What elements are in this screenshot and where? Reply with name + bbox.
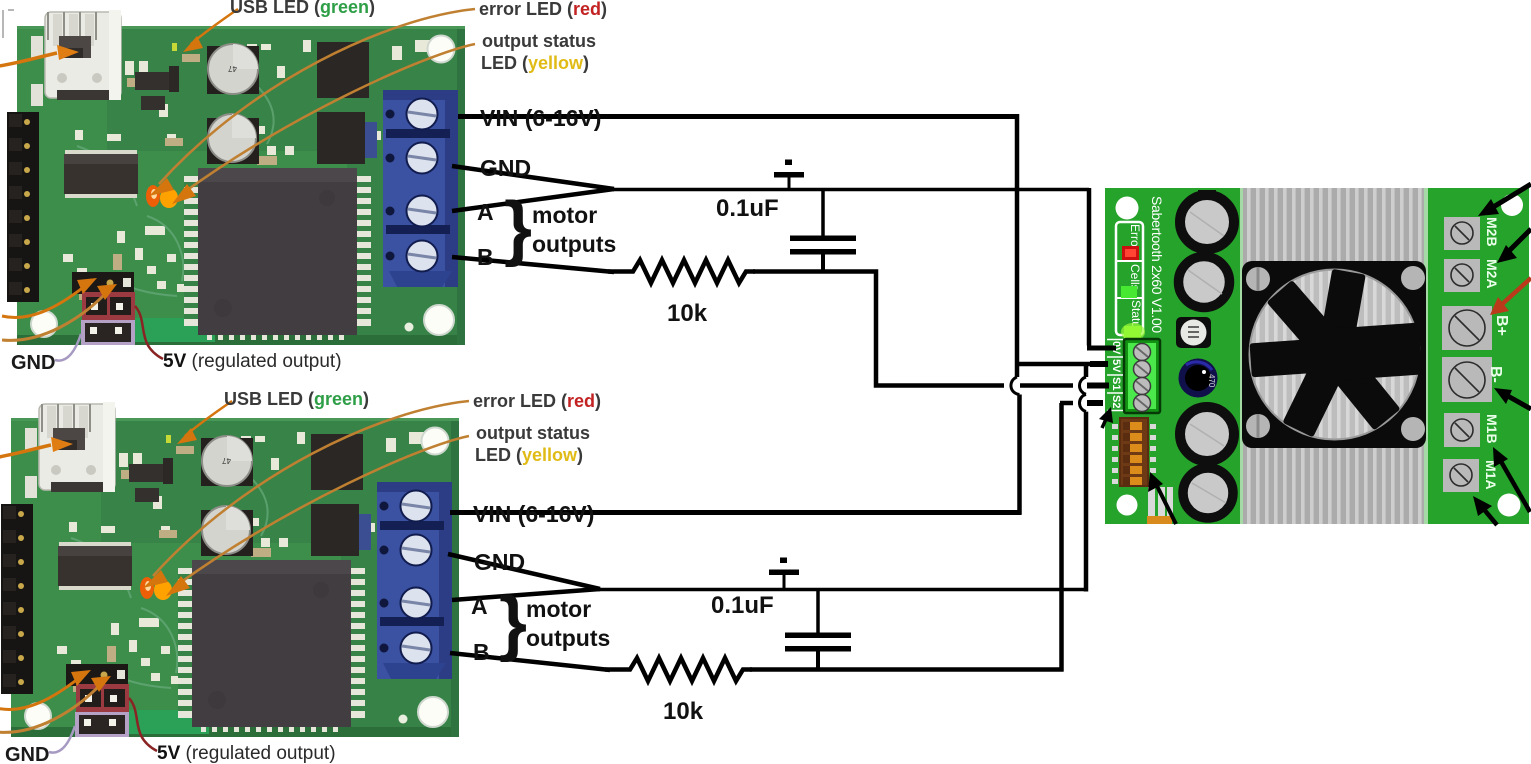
resistor R2 10k zigzag <box>605 658 752 681</box>
svg-text:A: A <box>477 199 494 225</box>
capacitor C2 plates <box>785 633 851 652</box>
svg-text:B-: B- <box>1487 366 1504 383</box>
svg-text:GND: GND <box>480 155 531 181</box>
annotation arrow to M2A <box>1508 229 1531 252</box>
annotation arrow to M1B <box>1499 458 1530 512</box>
wire stub into S2 terminal <box>1087 400 1103 406</box>
svg-text:0.1uF: 0.1uF <box>716 195 779 222</box>
terminal labels 0V 5V S1 S2 <box>1110 341 1122 408</box>
heatsink fins <box>1240 188 1428 524</box>
annotation arrow to DIP switch <box>1156 484 1176 524</box>
svg-text:S1: S1 <box>1110 377 1122 390</box>
wire GND board1 horizontal <box>608 188 1089 192</box>
svg-text:outputs: outputs <box>526 625 610 651</box>
wire stub into 0V terminal <box>1087 346 1116 351</box>
svg-text:Sabertooth 2x60 V1.00: Sabertooth 2x60 V1.00 <box>1149 196 1165 333</box>
svg-text:B: B <box>477 244 494 270</box>
error LED (red) <box>1122 246 1139 260</box>
annotation arrow to S2 terminal <box>1102 417 1107 428</box>
mounting holes <box>1116 197 1139 220</box>
annotation arrow to M2B <box>1490 184 1531 209</box>
svg-text:0.1uF: 0.1uF <box>711 592 774 619</box>
wire VIN vertical lower <box>1017 395 1022 515</box>
cells LED (green) <box>1121 286 1137 298</box>
wire stub into 5V terminal <box>1090 361 1108 367</box>
cooling fan <box>1242 261 1426 448</box>
svg-text:M1B: M1B <box>1484 414 1500 444</box>
wire from R1 to corner <box>753 272 1004 386</box>
wire vertical x=1086 down to board2 GND <box>1084 412 1089 592</box>
svg-text:B: B <box>473 639 490 665</box>
annotation arrow to M1A <box>1482 507 1497 525</box>
white resistor bars below DIP <box>1148 487 1155 518</box>
svg-text:motor: motor <box>526 596 591 622</box>
wire S1 between hops <box>1020 383 1073 388</box>
svg-text:A: A <box>471 593 488 619</box>
small cap 150 <box>1176 317 1211 348</box>
svg-text:M2A: M2A <box>1484 259 1500 289</box>
annotation arrow to B+ (red) <box>1500 278 1531 306</box>
svg-text:VIN (6-16V): VIN (6-16V) <box>473 501 594 527</box>
LED status panel <box>1116 222 1145 341</box>
svg-text:5V: 5V <box>1110 359 1122 373</box>
wire VIN board2 horizontal <box>450 510 1022 515</box>
fan corner screws <box>1246 267 1270 291</box>
wire vertical riser x=1061 up to S2 <box>1059 403 1064 672</box>
wire B board2 diagonal to resistor <box>450 653 610 670</box>
wire hop: VIN vertical over S1 wire <box>1011 377 1020 395</box>
Sabertooth 2x60 motor controller board <box>1099 184 1531 525</box>
motor driver board 2 (bottom-left) <box>0 389 601 764</box>
wire hop over S2 <box>1079 394 1086 411</box>
wire stub into S1 terminal <box>1087 383 1109 389</box>
wire VIN vertical (net VIN, x=1017) upper <box>1015 114 1020 377</box>
big electrolytic caps <box>1179 190 1235 518</box>
capacitor C2 0.1uF stem top <box>816 589 820 635</box>
ground symbol (bottom) <box>769 558 799 590</box>
DIP switch <box>1112 417 1156 487</box>
wire VIN board1 horizontal <box>458 114 1017 119</box>
power input terminal block (0V 5V S1 S2) <box>1107 339 1160 413</box>
svg-text:10k: 10k <box>667 300 708 327</box>
wire vertical x=1086 from 5V line down <box>1084 362 1089 377</box>
svg-text:S2: S2 <box>1110 395 1122 408</box>
ground symbol (top) <box>774 160 804 190</box>
blue inductor 470 <box>1179 359 1218 398</box>
svg-text:outputs: outputs <box>532 231 616 257</box>
wire GND board1 diagonals from terminal <box>452 166 614 189</box>
svg-text:M2B: M2B <box>1484 217 1500 247</box>
photo edge artifacts top-left <box>3 10 14 38</box>
resistor R1 10k zigzag <box>608 260 755 283</box>
output terminals M2B M2A B+ B- M1B M1A <box>1442 217 1492 492</box>
wire GND board2 diagonals <box>448 554 600 589</box>
wire B board1 diagonal to resistor <box>452 257 614 272</box>
wire GND board2 horizontal <box>595 588 1088 592</box>
capacitor C2 stem bottom <box>816 651 820 672</box>
capacitor C1 plates <box>790 236 856 255</box>
svg-text:}: } <box>499 583 527 663</box>
svg-text:470: 470 <box>1207 374 1216 388</box>
svg-text:}: } <box>504 188 532 268</box>
capacitor C1 0.1uF stem top <box>821 189 825 238</box>
wire from R2 to vertical riser <box>750 667 1064 672</box>
annotation arrow to B- <box>1506 395 1531 409</box>
wire hop over S1 <box>1079 377 1086 394</box>
svg-text:motor: motor <box>532 202 597 228</box>
fan blades <box>1250 269 1423 438</box>
status LED (green) <box>1124 326 1141 339</box>
svg-text:B+: B+ <box>1493 315 1510 336</box>
svg-text:10k: 10k <box>663 698 704 725</box>
wire 5V horizontal <box>1017 362 1108 367</box>
motor driver board 1 (top-left) <box>0 0 607 374</box>
svg-text:VIN (6-16V): VIN (6-16V) <box>480 105 601 131</box>
capacitor C1 stem bottom <box>821 254 825 274</box>
wire S2 horizontal to hop <box>1060 401 1073 406</box>
wire GND board1 vertical to 0V <box>1087 188 1092 346</box>
svg-text:GND: GND <box>474 549 525 575</box>
